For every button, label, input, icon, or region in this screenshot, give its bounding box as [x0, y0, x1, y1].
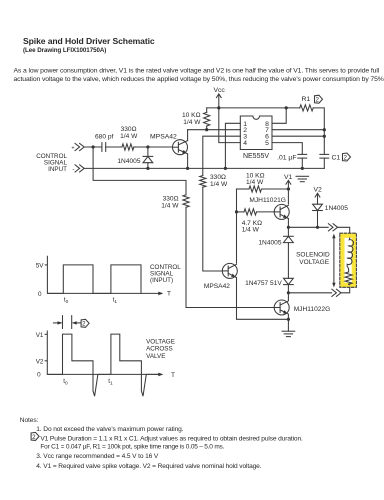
svg-text:1N4005: 1N4005	[117, 158, 140, 165]
svg-text:1N4757 51V: 1N4757 51V	[245, 280, 282, 287]
svg-text:V1 Pulse Duration = 1.1 x R1 x: V1 Pulse Duration = 1.1 x R1 x C1. Adjus…	[40, 435, 303, 442]
svg-text:T: T	[171, 372, 175, 379]
svg-text:INPUT: INPUT	[48, 166, 67, 173]
svg-text:2: 2	[82, 321, 86, 328]
svg-text:VOLTAGE: VOLTAGE	[299, 259, 329, 266]
svg-text:SOLENOID: SOLENOID	[296, 252, 330, 259]
svg-text:MJH11021G: MJH11021G	[249, 197, 286, 204]
svg-text:MPSA42: MPSA42	[150, 134, 177, 141]
svg-text:(INPUT): (INPUT)	[150, 277, 173, 284]
svg-text:+: +	[71, 145, 74, 151]
svg-text:2: 2	[32, 434, 36, 441]
svg-text:(Lee Drawing LFIX1001750A): (Lee Drawing LFIX1001750A)	[23, 47, 106, 54]
svg-text:Spike and Hold Driver Schemati: Spike and Hold Driver Schematic	[23, 36, 155, 46]
svg-text:V1 = Required valve spike volt: V1 = Required valve spike voltage. V2 = …	[43, 463, 261, 470]
svg-text:MJH11022G: MJH11022G	[294, 306, 331, 313]
svg-text:R1: R1	[302, 96, 311, 103]
svg-text:1/4 W: 1/4 W	[246, 179, 264, 186]
svg-text:5: 5	[265, 140, 269, 147]
svg-text:T: T	[167, 291, 171, 298]
svg-text:t0: t0	[64, 297, 69, 306]
svg-text:1/4 W: 1/4 W	[210, 181, 228, 188]
svg-text:actuation voltage to the valve: actuation voltage to the valve, which re…	[14, 76, 384, 83]
svg-text:1/4 W: 1/4 W	[242, 227, 260, 234]
svg-text:1.: 1.	[36, 426, 42, 433]
svg-text:1N4005: 1N4005	[325, 205, 348, 212]
svg-text:V1: V1	[284, 174, 293, 181]
svg-text:3.: 3.	[36, 453, 42, 460]
svg-text:10 KΩ: 10 KΩ	[182, 112, 201, 119]
svg-text:t1: t1	[113, 297, 118, 306]
svg-text:Notes:: Notes:	[20, 417, 39, 424]
svg-text:VALVE: VALVE	[146, 353, 165, 360]
svg-text:As a low power consumption dri: As a low power consumption driver, V1 is…	[14, 68, 380, 75]
svg-text:2: 2	[344, 154, 348, 161]
svg-text:4: 4	[243, 140, 247, 147]
svg-text:1N4005: 1N4005	[258, 240, 281, 247]
svg-text:2: 2	[316, 97, 320, 104]
svg-text:Vcc range recommended = 4.5 V: Vcc range recommended = 4.5 V to 16 V	[43, 453, 159, 460]
svg-text:t1: t1	[108, 378, 113, 387]
svg-text:680 pf: 680 pf	[95, 133, 114, 140]
svg-text:V2: V2	[314, 187, 323, 194]
svg-text:t0: t0	[63, 378, 68, 387]
svg-text:1/4 W: 1/4 W	[183, 119, 201, 126]
svg-text:1/4 W: 1/4 W	[161, 202, 179, 209]
svg-text:Vcc: Vcc	[214, 87, 226, 94]
svg-text:MPSA42: MPSA42	[204, 283, 230, 290]
svg-text:.01 µF: .01 µF	[277, 154, 296, 161]
svg-text:5V: 5V	[36, 262, 45, 269]
svg-text:1/4 W: 1/4 W	[120, 133, 138, 140]
svg-text:For C1 = 0.047 µF, R1 = 100k p: For C1 = 0.047 µF, R1 = 100k pot, spike …	[40, 444, 224, 451]
svg-text:Do not exceed the valve’s maxi: Do not exceed the valve’s maximum power …	[43, 426, 183, 433]
svg-text:0: 0	[38, 291, 42, 298]
svg-text:4.: 4.	[36, 463, 42, 470]
svg-text:VOLTAGE: VOLTAGE	[146, 338, 175, 345]
svg-text:C1: C1	[332, 155, 341, 162]
svg-text:ACROSS: ACROSS	[146, 346, 173, 353]
svg-text:V2: V2	[36, 359, 44, 366]
svg-text:NE555V: NE555V	[243, 153, 269, 160]
svg-text:-: -	[72, 166, 74, 173]
svg-text:0: 0	[37, 372, 41, 379]
svg-text:V1: V1	[36, 332, 44, 339]
